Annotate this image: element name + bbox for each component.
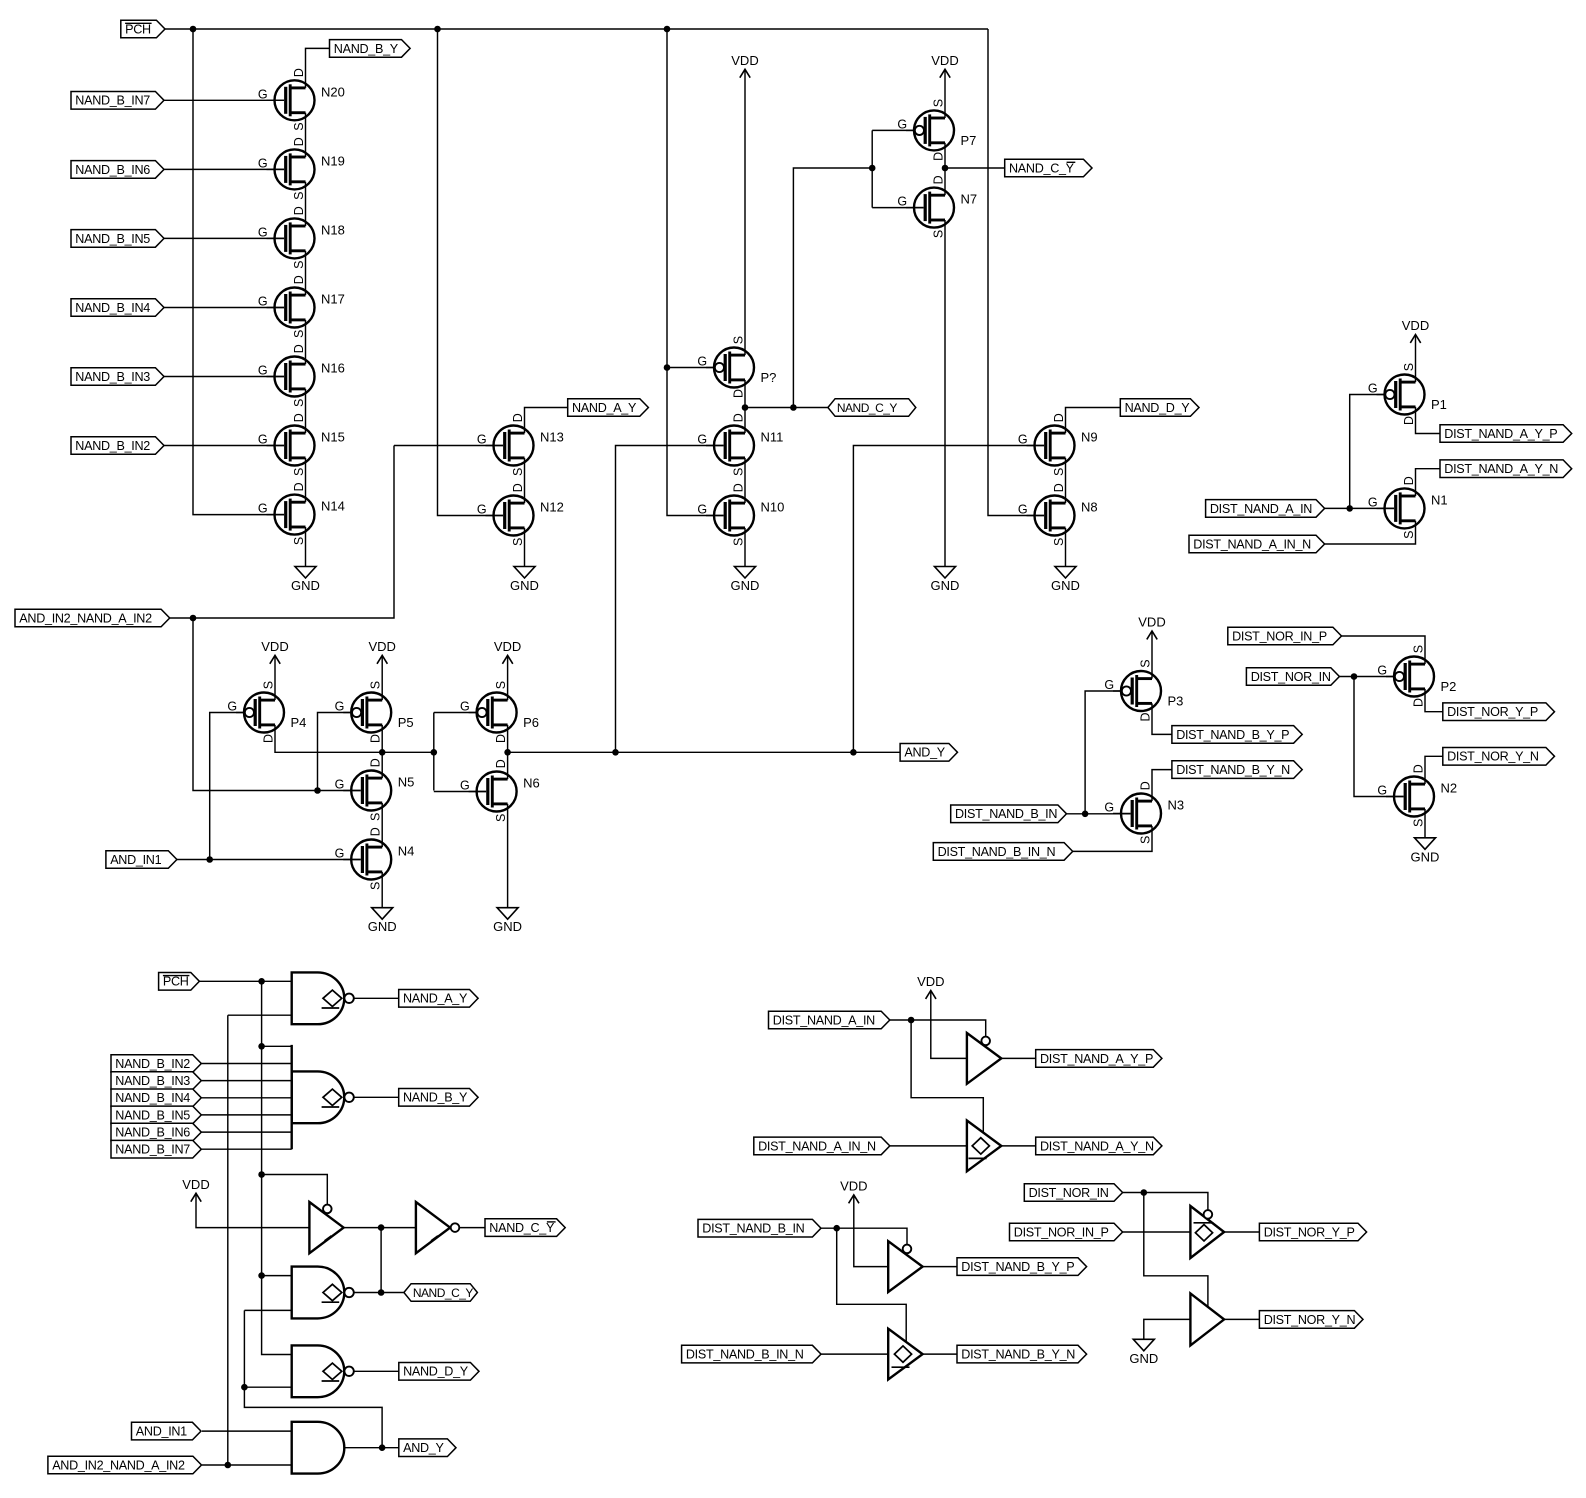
svg-text:N6: N6 — [523, 776, 540, 791]
svg-text:NAND_B_IN6: NAND_B_IN6 — [115, 1126, 190, 1140]
svg-text:NAND_A_Y: NAND_A_Y — [403, 992, 468, 1006]
svg-text:NAND_B_IN3: NAND_B_IN3 — [75, 370, 150, 384]
svg-text:DIST_NAND_B_Y_N: DIST_NAND_B_Y_N — [1176, 763, 1290, 777]
svg-text:AND_IN2_NAND_A_IN2: AND_IN2_NAND_A_IN2 — [52, 1458, 185, 1472]
svg-text:N2: N2 — [1441, 781, 1458, 796]
svg-text:GND: GND — [931, 578, 960, 593]
svg-text:AND_IN1: AND_IN1 — [110, 853, 161, 867]
svg-text:N8: N8 — [1081, 500, 1098, 515]
svg-text:N14: N14 — [321, 499, 345, 514]
svg-text:NAND_B_IN3: NAND_B_IN3 — [115, 1074, 190, 1088]
svg-text:DIST_NAND_A_Y_P: DIST_NAND_A_Y_P — [1040, 1052, 1153, 1066]
svg-text:P?: P? — [761, 370, 777, 385]
svg-text:DIST_NAND_B_IN: DIST_NAND_B_IN — [955, 807, 1057, 821]
svg-text:DIST_NAND_B_IN_N: DIST_NAND_B_IN_N — [686, 1348, 804, 1362]
svg-text:NAND_B_IN5: NAND_B_IN5 — [115, 1108, 190, 1122]
svg-text:DIST_NAND_A_IN_N: DIST_NAND_A_IN_N — [758, 1139, 876, 1153]
svg-text:NAND_B_IN7: NAND_B_IN7 — [75, 94, 150, 108]
svg-text:NAND_A_Y: NAND_A_Y — [572, 401, 637, 415]
svg-text:DIST_NAND_A_IN_N: DIST_NAND_A_IN_N — [1193, 537, 1311, 551]
svg-text:VDD: VDD — [261, 639, 288, 654]
svg-text:N12: N12 — [540, 500, 564, 515]
svg-text:VDD: VDD — [494, 639, 521, 654]
svg-text:GND: GND — [493, 919, 522, 934]
svg-text:P7: P7 — [961, 133, 977, 148]
svg-text:GND: GND — [368, 919, 397, 934]
svg-text:VDD: VDD — [1138, 615, 1165, 630]
svg-text:N9: N9 — [1081, 430, 1098, 445]
svg-text:NAND_B_Y: NAND_B_Y — [403, 1091, 468, 1105]
svg-text:P4: P4 — [291, 715, 307, 730]
svg-text:NAND_B_IN2: NAND_B_IN2 — [75, 439, 150, 453]
svg-text:NAND_C_Y: NAND_C_Y — [837, 401, 898, 415]
svg-text:PCH: PCH — [163, 975, 189, 989]
svg-text:GND: GND — [1411, 849, 1440, 864]
svg-text:DIST_NAND_A_Y_N: DIST_NAND_A_Y_N — [1040, 1139, 1154, 1153]
svg-text:VDD: VDD — [368, 639, 395, 654]
svg-text:DIST_NOR_Y_P: DIST_NOR_Y_P — [1447, 705, 1538, 719]
svg-text:NAND_D_Y: NAND_D_Y — [403, 1365, 469, 1379]
svg-text:AND_IN1: AND_IN1 — [136, 1425, 187, 1439]
svg-text:N10: N10 — [761, 500, 785, 515]
svg-text:GND: GND — [731, 578, 760, 593]
svg-text:P2: P2 — [1441, 679, 1457, 694]
svg-text:DIST_NOR_IN: DIST_NOR_IN — [1029, 1186, 1109, 1200]
svg-text:VDD: VDD — [1402, 318, 1429, 333]
svg-text:N17: N17 — [321, 292, 345, 307]
svg-text:DIST_NOR_Y_N: DIST_NOR_Y_N — [1264, 1313, 1356, 1327]
svg-text:GND: GND — [1051, 578, 1080, 593]
svg-text:VDD: VDD — [840, 1178, 867, 1193]
svg-text:NAND_B_IN6: NAND_B_IN6 — [75, 163, 150, 177]
svg-text:NAND_B_IN4: NAND_B_IN4 — [115, 1091, 190, 1105]
svg-text:PCH: PCH — [125, 22, 151, 36]
svg-text:N18: N18 — [321, 222, 345, 237]
svg-text:NAND_B_IN7: NAND_B_IN7 — [115, 1143, 190, 1157]
svg-text:DIST_NOR_Y_P: DIST_NOR_Y_P — [1264, 1225, 1355, 1239]
svg-text:DIST_NAND_B_Y_P: DIST_NAND_B_Y_P — [1176, 728, 1289, 742]
svg-text:NAND_C_Y: NAND_C_Y — [489, 1221, 555, 1235]
svg-text:NAND_B_IN5: NAND_B_IN5 — [75, 232, 150, 246]
svg-text:N11: N11 — [761, 430, 784, 445]
svg-text:N1: N1 — [1431, 492, 1448, 507]
svg-text:DIST_NOR_IN_P: DIST_NOR_IN_P — [1014, 1225, 1109, 1239]
svg-text:GND: GND — [1129, 1351, 1158, 1366]
svg-text:DIST_NAND_A_Y_P: DIST_NAND_A_Y_P — [1444, 427, 1557, 441]
svg-text:N4: N4 — [398, 844, 415, 859]
svg-text:AND_Y: AND_Y — [904, 746, 945, 760]
svg-text:GND: GND — [510, 578, 539, 593]
svg-text:DIST_NAND_B_IN: DIST_NAND_B_IN — [702, 1222, 804, 1236]
svg-text:P1: P1 — [1431, 397, 1447, 412]
svg-text:DIST_NOR_IN: DIST_NOR_IN — [1251, 670, 1331, 684]
svg-text:N19: N19 — [321, 153, 345, 168]
svg-text:NAND_D_Y: NAND_D_Y — [1125, 401, 1191, 415]
svg-text:VDD: VDD — [931, 53, 958, 68]
svg-text:NAND_C_Y: NAND_C_Y — [1009, 161, 1075, 175]
svg-text:P6: P6 — [523, 715, 539, 730]
svg-text:DIST_NOR_IN_P: DIST_NOR_IN_P — [1232, 629, 1327, 643]
svg-text:DIST_NOR_Y_N: DIST_NOR_Y_N — [1447, 750, 1539, 764]
svg-text:NAND_C_Y: NAND_C_Y — [413, 1286, 474, 1300]
svg-text:P5: P5 — [398, 715, 414, 730]
svg-text:N13: N13 — [540, 430, 564, 445]
svg-text:NAND_B_Y: NAND_B_Y — [334, 42, 399, 56]
svg-text:N20: N20 — [321, 84, 345, 99]
svg-text:AND_Y: AND_Y — [403, 1441, 444, 1455]
svg-text:NAND_B_IN2: NAND_B_IN2 — [115, 1057, 190, 1071]
svg-text:VDD: VDD — [182, 1177, 209, 1192]
svg-text:AND_IN2_NAND_A_IN2: AND_IN2_NAND_A_IN2 — [19, 611, 152, 625]
svg-text:N16: N16 — [321, 361, 345, 376]
svg-text:DIST_NAND_B_Y_N: DIST_NAND_B_Y_N — [961, 1348, 1075, 1362]
svg-text:VDD: VDD — [917, 974, 944, 989]
svg-text:GND: GND — [291, 578, 320, 593]
svg-text:VDD: VDD — [731, 53, 758, 68]
svg-text:P3: P3 — [1168, 694, 1184, 709]
svg-text:DIST_NAND_B_Y_P: DIST_NAND_B_Y_P — [961, 1260, 1074, 1274]
svg-text:NAND_B_IN4: NAND_B_IN4 — [75, 301, 150, 315]
svg-text:N3: N3 — [1168, 798, 1185, 813]
svg-text:N15: N15 — [321, 430, 345, 445]
svg-text:N7: N7 — [961, 192, 978, 207]
svg-text:DIST_NAND_A_IN: DIST_NAND_A_IN — [773, 1013, 875, 1027]
svg-text:DIST_NAND_A_Y_N: DIST_NAND_A_Y_N — [1444, 462, 1558, 476]
svg-text:N5: N5 — [398, 775, 415, 790]
svg-text:DIST_NAND_B_IN_N: DIST_NAND_B_IN_N — [938, 845, 1056, 859]
svg-text:DIST_NAND_A_IN: DIST_NAND_A_IN — [1210, 502, 1312, 516]
